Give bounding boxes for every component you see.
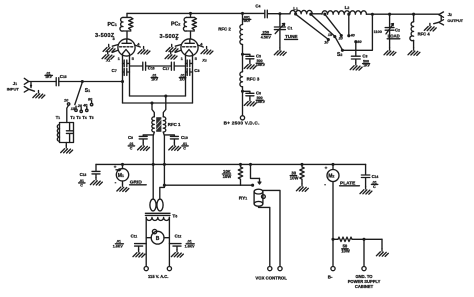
- ground: C14: [360, 187, 372, 195]
- capacitor C5: [243, 54, 254, 61]
- svg-text:C: C: [183, 146, 186, 150]
- svg-text:C15: C15: [60, 74, 67, 79]
- node: left filament lead on bus A: [152, 163, 155, 166]
- svg-text:T2: T2: [70, 115, 75, 120]
- tube V1 3-500Z: [118, 39, 135, 56]
- choke RFC2: [240, 13, 243, 54]
- svg-text:LOAD: LOAD: [388, 34, 400, 39]
- wire: relay to VOX terminal right: [263, 190, 280, 266]
- node: S1 wiper junction: [81, 80, 84, 83]
- ground: J1 shield: [33, 91, 45, 99]
- switch S1 wiper arm: [75, 82, 83, 104]
- svg-text:C: C: [130, 146, 133, 150]
- svg-text:RFC 3: RFC 3: [247, 76, 260, 81]
- wire: outer filament bus: [123, 102, 193, 104]
- svg-text:T1: T1: [56, 115, 61, 120]
- ground: J2 shield: [424, 23, 436, 31]
- tap wire 15m: [311, 14, 335, 36]
- svg-text:T5: T5: [89, 115, 94, 120]
- wire: T6 primary left leg: [145, 217, 147, 266]
- relay RY1 armature arrow: [258, 178, 261, 184]
- svg-text:10KV: 10KV: [256, 100, 266, 104]
- wire: contact 10 to T1: [67, 105, 69, 122]
- svg-text:C11: C11: [131, 234, 138, 239]
- svg-text:C: C: [373, 185, 376, 189]
- svg-text:1.6KV: 1.6KV: [185, 245, 196, 249]
- node: drive line to filament lead: [121, 80, 124, 83]
- inductor L2: [322, 11, 366, 14]
- contact 80m S1: [90, 103, 92, 105]
- tube V2 3-500Z: [181, 39, 198, 56]
- svg-text:L2: L2: [345, 5, 350, 10]
- node: RFC2 plate bus junction: [241, 12, 244, 15]
- blower motor B: [146, 229, 169, 244]
- transformer T6 primary: [146, 217, 169, 220]
- wire: relay coil to VOX terminal left: [259, 206, 270, 266]
- ground: C13: [90, 178, 102, 186]
- ground: RFC4: [408, 48, 420, 56]
- svg-text:80: 80: [357, 40, 362, 44]
- ground: C1: [274, 48, 286, 56]
- transformer T6 secondary loops: [150, 199, 163, 211]
- wire: B- terminal lead: [332, 239, 334, 266]
- wire: meter return bus A: [96, 163, 366, 165]
- tap wire 40m: [348, 14, 350, 35]
- capacitor C7: [123, 60, 130, 75]
- svg-text:80: 80: [88, 98, 93, 102]
- terminal: GND to power supply: [362, 267, 366, 271]
- capacitor C6: [243, 91, 254, 98]
- wire: input line: [29, 81, 123, 83]
- capacitor C3 padder: [351, 50, 360, 62]
- wire: top plate bus: [127, 12, 439, 15]
- meter M2 plate: [327, 164, 339, 239]
- svg-text:5: 5: [195, 56, 198, 61]
- ground: C2: [384, 48, 396, 56]
- svg-text:M2: M2: [328, 174, 334, 180]
- capacitor C9: [139, 135, 153, 143]
- choke RFC4: [410, 14, 414, 48]
- contact 20m S1: [80, 110, 82, 112]
- capacitor C8: [186, 60, 193, 75]
- connector J2 output jack: [434, 12, 444, 25]
- svg-text:C7: C7: [112, 68, 117, 73]
- svg-text:INPUT: INPUT: [7, 87, 20, 92]
- resistor 50 10W: [333, 237, 382, 241]
- capacitor C11: [135, 244, 147, 250]
- node: shunt resistor top: [300, 163, 303, 166]
- wire: V2 filament pin5 lead: [192, 56, 194, 103]
- ground: V2 grid right: [198, 45, 204, 47]
- wire: cathode coupling line: [130, 65, 186, 67]
- svg-text:40: 40: [82, 103, 88, 107]
- svg-text:C13: C13: [80, 172, 87, 177]
- switch S2 wiper: [335, 37, 342, 50]
- svg-text:1.6KV: 1.6KV: [113, 245, 124, 249]
- capacitor C16: [143, 62, 146, 70]
- inductor L1: [290, 10, 312, 13]
- node: C1 junction: [278, 12, 281, 15]
- ground: V1 grid upper-left: [112, 45, 118, 47]
- ground: V1 grid right: [135, 45, 141, 47]
- svg-text:10W: 10W: [290, 175, 299, 180]
- svg-text:-: -: [324, 182, 326, 188]
- node: C5 junction: [241, 53, 244, 56]
- ground: V2 grid upper-left: [175, 45, 181, 47]
- terminal: 115VAC right: [167, 267, 171, 271]
- svg-text:10: 10: [64, 99, 69, 103]
- parasitic choke PC2: [183, 13, 196, 38]
- ground: C10: [169, 143, 181, 151]
- svg-text:PC1: PC1: [108, 22, 117, 28]
- svg-text:RY1: RY1: [239, 195, 248, 201]
- svg-text:10W: 10W: [341, 249, 350, 254]
- svg-text:115 V. A.C.: 115 V. A.C.: [148, 274, 168, 279]
- capacitor C14: [361, 164, 369, 186]
- ground: C11: [133, 250, 145, 258]
- svg-text:M1: M1: [118, 173, 124, 179]
- svg-text:RFC 2: RFC 2: [218, 27, 231, 32]
- svg-text:C10: C10: [181, 135, 188, 140]
- svg-text:C17: C17: [163, 66, 170, 71]
- svg-text:C1: C1: [287, 26, 292, 31]
- contact 10m S2: [327, 38, 330, 41]
- svg-text:1KV: 1KV: [45, 75, 52, 79]
- svg-text:J2: J2: [448, 12, 452, 17]
- node: RFC4 junction: [412, 13, 415, 16]
- ground: V1 grid lower-left: [112, 50, 118, 52]
- svg-text:10W: 10W: [223, 174, 232, 179]
- svg-text:1KV: 1KV: [180, 78, 187, 82]
- svg-text:T3: T3: [76, 115, 81, 120]
- contact 20m S2: [340, 34, 343, 37]
- terminal: B-: [331, 267, 335, 271]
- svg-text:40: 40: [350, 33, 356, 37]
- node: right filament lead on bus A: [163, 163, 166, 166]
- svg-text:C8: C8: [194, 68, 199, 73]
- node: B- junction: [331, 238, 334, 241]
- svg-text:250: 250: [262, 30, 269, 35]
- svg-text:-: -: [115, 180, 117, 186]
- wire: V1 filament pin1 lead: [122, 56, 124, 103]
- svg-text:X2: X2: [201, 58, 207, 63]
- contact 80m S2: [354, 40, 357, 43]
- ground: C3: [350, 63, 362, 71]
- svg-text:5: 5: [132, 56, 135, 61]
- contact 15m S1: [75, 109, 77, 111]
- svg-text:C12: C12: [175, 234, 182, 239]
- choke RFC3: [240, 54, 243, 91]
- svg-text:C3: C3: [362, 54, 367, 59]
- wire: inner filament bus: [130, 95, 186, 97]
- svg-text:L1: L1: [293, 6, 298, 11]
- wire: left filament lead below RFC1: [153, 132, 154, 198]
- svg-text:RFC 4: RFC 4: [418, 31, 431, 36]
- svg-text:+: +: [325, 166, 328, 171]
- svg-text:3: 3: [113, 36, 116, 41]
- tap wire 20m: [325, 14, 342, 35]
- capacitor C17: [171, 62, 174, 70]
- ground: shunt resistor: [296, 184, 308, 192]
- svg-text:T4: T4: [82, 115, 87, 120]
- svg-text:1KV: 1KV: [363, 63, 370, 67]
- capacitor C15: [56, 78, 59, 86]
- svg-text:1100: 1100: [374, 30, 382, 34]
- connector J1 input jack: [24, 78, 34, 92]
- svg-text:C4: C4: [255, 3, 260, 8]
- node: PC2 plate bus junction: [189, 12, 192, 15]
- svg-text:OUTPUT: OUTPUT: [447, 19, 463, 23]
- wire: V1 filament pin5 lead: [129, 56, 131, 96]
- ground: C5: [244, 61, 256, 69]
- ground: B- line: [381, 239, 383, 249]
- relay RY1: [254, 189, 265, 206]
- contact 40m S2: [347, 34, 350, 37]
- ground: C6: [244, 98, 256, 106]
- wire: S2 common to coil end: [342, 14, 372, 50]
- ground: C9: [138, 143, 150, 151]
- svg-text:J1: J1: [13, 81, 17, 86]
- terminal: 115VAC left: [144, 267, 148, 271]
- node: bias resistor top: [239, 163, 242, 166]
- resistor 10K 10W bias: [238, 164, 242, 185]
- capacitor C2 LOAD: [385, 14, 394, 48]
- node: C2 junction: [388, 13, 391, 16]
- svg-text:VOX CONTROL: VOX CONTROL: [255, 275, 287, 280]
- contact 40m S1: [86, 109, 88, 111]
- meter M1 grid: [116, 164, 128, 184]
- svg-text:20: 20: [338, 37, 344, 41]
- svg-text:PC2: PC2: [171, 22, 180, 28]
- svg-text:RFC 1: RFC 1: [168, 122, 181, 127]
- wire: GND terminal lead: [363, 239, 365, 266]
- capacitor C1 TUNE: [274, 14, 285, 48]
- svg-text:1KV: 1KV: [151, 78, 158, 82]
- capacitor C13: [92, 164, 100, 177]
- svg-text:C: C: [80, 184, 83, 188]
- svg-text:.01: .01: [116, 240, 121, 244]
- terminal: VOX right: [278, 267, 282, 271]
- node: C6 junction: [241, 90, 244, 93]
- contact 15m S2: [333, 35, 336, 38]
- svg-text:C9: C9: [128, 135, 133, 140]
- svg-text:T6: T6: [172, 213, 177, 219]
- svg-text:C16: C16: [148, 65, 155, 70]
- svg-text:10KV: 10KV: [256, 63, 266, 67]
- terminal: B+: [240, 116, 244, 120]
- choke RFC1 bifilar winding: [152, 117, 166, 132]
- relay RY1 feed from bus A: [251, 164, 260, 178]
- contact 10m S1: [67, 103, 69, 105]
- svg-text:1: 1: [118, 56, 121, 61]
- svg-text:S1: S1: [85, 88, 90, 94]
- svg-text:B-: B-: [328, 275, 333, 280]
- svg-text:B+ 2500 V.D.C.: B+ 2500 V.D.C.: [224, 121, 260, 126]
- wire: V2 filament pin1 lead: [185, 56, 187, 96]
- svg-text:C2: C2: [395, 28, 400, 33]
- tuned circuit T1: [57, 123, 73, 143]
- transformer T6 core: [145, 213, 170, 215]
- ground: C12: [171, 250, 183, 258]
- parasitic choke PC1: [120, 13, 133, 38]
- ground: T1: [65, 143, 67, 146]
- svg-text:CABINET: CABINET: [355, 284, 374, 289]
- capacitor C12: [169, 244, 181, 250]
- svg-text:TUNE: TUNE: [285, 34, 298, 39]
- svg-text:5KV: 5KV: [244, 19, 251, 23]
- svg-text:4.5KV: 4.5KV: [261, 36, 272, 40]
- ground: V2 grid lower-left: [175, 50, 181, 52]
- wire: T6 primary right leg: [168, 217, 170, 266]
- resistor 30 10W meter shunt: [300, 164, 304, 183]
- svg-text:1: 1: [181, 56, 184, 61]
- svg-text:+: +: [114, 164, 117, 169]
- svg-text:10: 10: [324, 41, 329, 45]
- capacitor C10: [164, 135, 178, 143]
- choke RFC1 drops from filament buses: [152, 103, 154, 117]
- wire: right filament lead below RFC1: [160, 132, 165, 198]
- terminal: VOX left: [268, 267, 272, 271]
- wire: bias bus B: [164, 184, 252, 186]
- svg-text:.01: .01: [187, 240, 192, 244]
- svg-text:S2: S2: [337, 52, 342, 58]
- svg-text:B: B: [156, 236, 160, 242]
- wire: B+ lead: [242, 91, 244, 115]
- tap wire 10m: [296, 14, 329, 39]
- svg-text:20: 20: [77, 104, 83, 108]
- svg-text:C14: C14: [372, 174, 379, 179]
- capacitor C4 blocking: [265, 10, 268, 18]
- svg-text:C5: C5: [256, 53, 261, 58]
- svg-text:C6: C6: [256, 90, 261, 95]
- ground: M1: [117, 184, 129, 192]
